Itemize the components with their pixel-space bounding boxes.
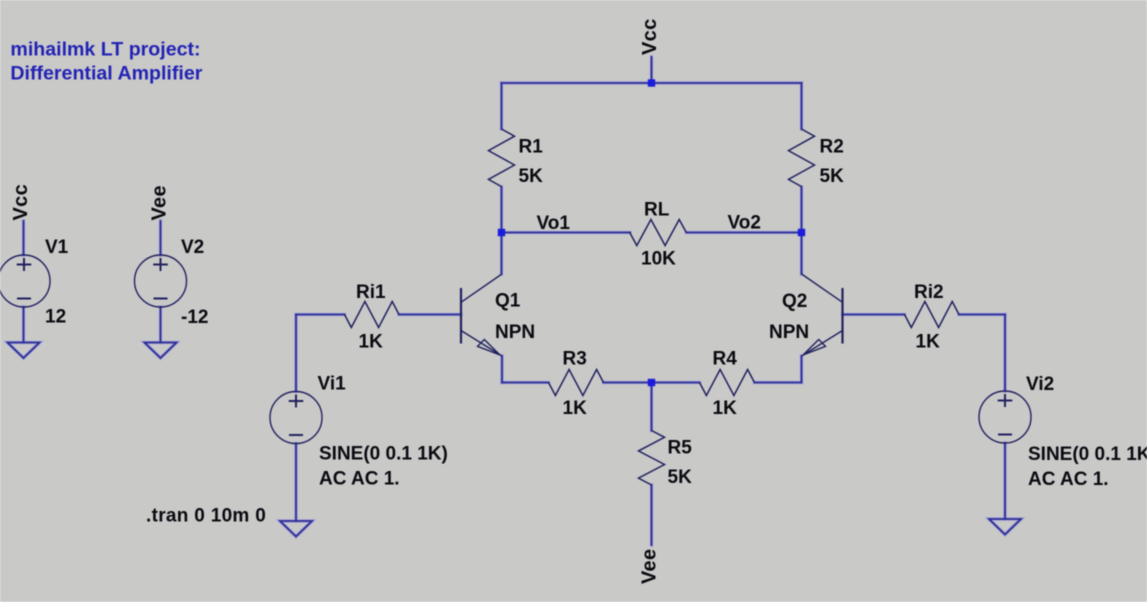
svg-text:NPN: NPN (495, 322, 535, 343)
svg-text:Ri2: Ri2 (914, 282, 944, 303)
svg-text:R2: R2 (820, 137, 844, 158)
svg-text:Vee: Vee (149, 185, 171, 220)
svg-text:Vee: Vee (639, 549, 661, 584)
svg-text:V1: V1 (45, 237, 69, 258)
svg-text:mihailmk LT project:: mihailmk LT project: (10, 38, 200, 60)
svg-text:5K: 5K (668, 467, 693, 488)
svg-text:Vi1: Vi1 (318, 374, 347, 395)
svg-text:Vcc: Vcc (10, 184, 32, 221)
svg-text:AC AC 1.: AC AC 1. (1028, 469, 1109, 490)
svg-text:1K: 1K (359, 332, 384, 353)
svg-text:Q2: Q2 (782, 291, 807, 312)
svg-text:R5: R5 (668, 438, 693, 459)
svg-text:1K: 1K (563, 398, 588, 419)
svg-text:1K: 1K (916, 332, 941, 353)
svg-text:Vo1: Vo1 (537, 213, 571, 234)
svg-text:AC AC 1.: AC AC 1. (319, 469, 400, 490)
svg-text:SINE(0 0.1 1K): SINE(0 0.1 1K) (319, 444, 448, 465)
svg-text:R1: R1 (519, 137, 544, 158)
svg-text:.tran 0 10m 0: .tran 0 10m 0 (146, 506, 266, 527)
svg-text:Ri1: Ri1 (356, 282, 386, 303)
svg-text:NPN: NPN (769, 322, 809, 343)
svg-text:5K: 5K (519, 166, 544, 187)
svg-text:5K: 5K (820, 166, 845, 187)
svg-text:1K: 1K (713, 398, 738, 419)
svg-text:Differential Amplifier: Differential Amplifier (10, 62, 202, 84)
svg-text:-12: -12 (181, 307, 208, 328)
svg-text:Vi2: Vi2 (1026, 374, 1054, 395)
svg-text:Vcc: Vcc (639, 19, 661, 56)
svg-text:12: 12 (45, 307, 66, 328)
svg-text:V2: V2 (181, 237, 204, 258)
svg-text:10K: 10K (641, 249, 676, 270)
svg-text:RL: RL (644, 200, 670, 221)
svg-text:SINE(0 0.1 1K): SINE(0 0.1 1K) (1028, 444, 1147, 465)
svg-text:Q1: Q1 (495, 291, 521, 312)
svg-text:R4: R4 (713, 349, 738, 370)
svg-text:R3: R3 (563, 349, 587, 370)
svg-text:Vo2: Vo2 (728, 213, 761, 234)
